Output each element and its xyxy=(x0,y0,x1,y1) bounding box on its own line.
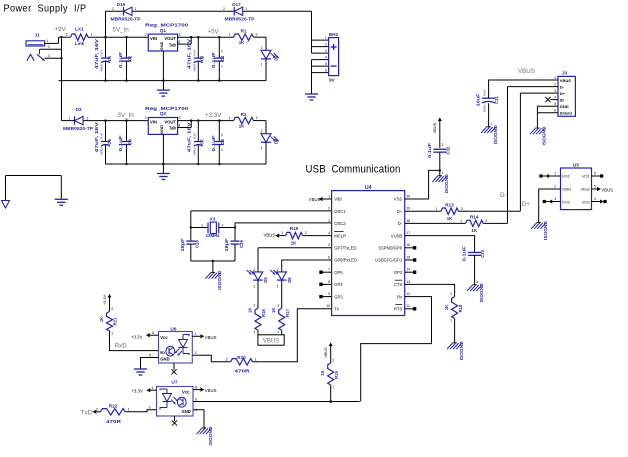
svg-text:2: 2 xyxy=(442,143,444,147)
svg-text:2: 2 xyxy=(261,129,263,133)
wire LX1 to Q1 VIN xyxy=(88,36,148,38)
connector J3 USB xyxy=(554,70,575,116)
capacitor C2 0.1uF xyxy=(118,37,132,80)
svg-text:Reg_MCP1700: Reg_MCP1700 xyxy=(145,23,188,29)
svg-text:2: 2 xyxy=(66,33,68,37)
earth ground triangle xyxy=(2,201,10,209)
svg-text:USBCFG/GP1: USBCFG/GP1 xyxy=(375,258,403,263)
svg-text:GP4: GP4 xyxy=(334,282,343,287)
IC U5 xyxy=(561,162,592,209)
svg-text:ISOGND: ISOGND xyxy=(217,271,222,290)
svg-text:0.1uF: 0.1uF xyxy=(211,51,216,68)
diode D3 MBR0520-TP xyxy=(63,107,93,131)
svg-text:1: 1 xyxy=(277,330,279,334)
svg-text:D+: D+ xyxy=(397,209,403,214)
svg-text:6: 6 xyxy=(594,172,596,176)
capacitor C33 0.1uF xyxy=(462,246,485,285)
svg-text:ISOGND: ISOGND xyxy=(479,283,484,302)
svg-text:16: 16 xyxy=(406,243,410,247)
wire 3.3V ground rail xyxy=(106,163,267,165)
svg-text:VBUS: VBUS xyxy=(263,339,279,345)
svg-text:C28: C28 xyxy=(195,239,200,247)
svg-text:C8: C8 xyxy=(220,139,225,145)
svg-text:Power Supply I/P: Power Supply I/P xyxy=(4,3,87,14)
svg-text:8: 8 xyxy=(152,331,154,335)
svg-text:8: 8 xyxy=(328,280,330,284)
svg-text:D-: D- xyxy=(398,221,403,226)
capacitor C32 0.1uF xyxy=(427,142,450,175)
svg-text:1: 1 xyxy=(152,386,154,390)
svg-text:11: 11 xyxy=(406,304,410,308)
ground Q2 xyxy=(157,173,170,175)
svg-text:R18: R18 xyxy=(458,304,463,312)
svg-text:Q1: Q1 xyxy=(160,28,167,34)
connector J1 xyxy=(26,33,45,61)
wire R22 to U7 xyxy=(125,410,156,412)
svg-text:C1: C1 xyxy=(107,55,112,61)
ground ISOGND U7 xyxy=(197,427,214,446)
svg-text:MINUS: MINUS xyxy=(194,63,196,71)
svg-text:4: 4 xyxy=(328,231,330,235)
resistor R1 1K xyxy=(229,29,258,45)
capacitor C3 47uF 16V xyxy=(187,37,205,80)
svg-text:5V_In: 5V_In xyxy=(113,27,130,34)
svg-text:0.1uF: 0.1uF xyxy=(211,135,216,152)
svg-text:+3.3V: +3.3V xyxy=(103,295,107,305)
wire U5 GND to ISOGND xyxy=(539,185,561,223)
wire top battery rail xyxy=(106,10,312,12)
resistor R21 1K xyxy=(99,294,118,336)
svg-text:Vcc: Vcc xyxy=(160,335,168,340)
svg-text:3: 3 xyxy=(48,54,50,58)
capacitor C31 10uF xyxy=(476,89,499,126)
svg-text:2: 2 xyxy=(222,223,224,227)
battery holder BH1 9V xyxy=(329,32,339,82)
svg-text:12MHz: 12MHz xyxy=(206,233,220,238)
wire OSC2 loop xyxy=(235,223,332,241)
wire U7 pin1 port +3.3V xyxy=(132,386,157,394)
svg-text:1: 1 xyxy=(554,76,556,80)
svg-text:3: 3 xyxy=(179,116,181,120)
svg-text:1: 1 xyxy=(253,285,255,289)
svg-text:R2: R2 xyxy=(241,112,247,117)
svg-text:47uF, 16V: 47uF, 16V xyxy=(187,39,192,69)
U5 pin1 port xyxy=(539,172,560,179)
svg-text:1K: 1K xyxy=(247,308,252,313)
svg-text:D3: D3 xyxy=(76,107,82,112)
wire D6 to R17 xyxy=(281,280,283,308)
svg-text:0.1uF: 0.1uF xyxy=(118,51,123,68)
svg-text:I/O1: I/O1 xyxy=(562,174,570,179)
svg-text:U7: U7 xyxy=(171,379,177,385)
svg-text:D5: D5 xyxy=(263,277,268,283)
svg-text:I/O2: I/O2 xyxy=(582,200,590,205)
svg-text:R13: R13 xyxy=(445,202,454,207)
svg-text:MINUS: MINUS xyxy=(102,63,104,71)
wire J1 pin2 xyxy=(40,45,62,49)
svg-text:1: 1 xyxy=(281,231,283,235)
svg-text:10uF: 10uF xyxy=(476,93,481,107)
capacitor C28 18pF xyxy=(180,238,200,261)
svg-text:R1: R1 xyxy=(241,29,247,34)
svg-text:2: 2 xyxy=(461,207,463,211)
svg-text:5: 5 xyxy=(149,353,151,357)
LED D2 xyxy=(261,46,279,81)
svg-text:2: 2 xyxy=(195,351,197,355)
svg-text:20: 20 xyxy=(406,194,410,198)
capacitor C29 18pF xyxy=(224,238,244,261)
svg-text:+5V: +5V xyxy=(208,29,220,36)
svg-text:USB Communication: USB Communication xyxy=(306,164,401,176)
wire battery rail to BH1 xyxy=(312,11,329,53)
svg-text:R15: R15 xyxy=(290,226,299,231)
wire OSC1 loop xyxy=(191,211,332,241)
svg-text:3V_In: 3V_In xyxy=(118,112,135,119)
ground U6 xyxy=(134,368,147,370)
wire J3 D+ down xyxy=(520,92,558,94)
svg-text:1: 1 xyxy=(135,7,137,11)
resistor R14 1K xyxy=(405,215,508,234)
svg-text:D+: D+ xyxy=(522,201,530,208)
svg-text:VIN: VIN xyxy=(150,36,157,41)
ground Q1 xyxy=(157,89,170,91)
svg-text:D+: D+ xyxy=(560,91,566,96)
crystal X3 12MHz xyxy=(190,217,237,239)
svg-text:SSPND/GP0: SSPND/GP0 xyxy=(378,246,403,251)
wire +9V to D3 xyxy=(62,120,75,122)
svg-text:4: 4 xyxy=(554,96,556,100)
ground ISOGND C31 xyxy=(481,125,498,144)
svg-text:0.1uF: 0.1uF xyxy=(462,246,467,262)
wire R20 to U6 xyxy=(192,355,230,362)
svg-text:0.1uF: 0.1uF xyxy=(118,135,123,152)
svg-text:BH1: BH1 xyxy=(329,32,339,37)
svg-text:GP6/RxLED: GP6/RxLED xyxy=(334,258,357,263)
svg-text:10: 10 xyxy=(326,304,330,308)
svg-text:17: 17 xyxy=(406,231,410,235)
optocoupler U6 xyxy=(159,326,193,363)
svg-text:GND: GND xyxy=(562,187,571,192)
capacitor C7 47uF 16V xyxy=(187,121,205,164)
wire Q1 VOUT to +5V rail xyxy=(178,36,234,44)
svg-text:Vcc: Vcc xyxy=(182,389,190,394)
svg-text:1K: 1K xyxy=(444,305,449,310)
U5 pin3 port xyxy=(543,197,561,204)
svg-text:OSC2: OSC2 xyxy=(334,221,346,226)
ground ISOGND C32 xyxy=(432,174,449,193)
ground ISOGND U5 xyxy=(531,221,548,240)
wire D5 to R16 xyxy=(257,280,259,308)
wire D+ from J3 xyxy=(519,93,521,211)
svg-text:9V: 9V xyxy=(329,78,336,83)
svg-text:+3.3V: +3.3V xyxy=(131,335,142,340)
svg-text:ISOGND: ISOGND xyxy=(493,125,498,144)
svg-text:R22: R22 xyxy=(109,403,118,408)
capacitor C8 0.1uF xyxy=(211,121,225,164)
resistor R20 470R xyxy=(226,355,257,373)
svg-text:2: 2 xyxy=(254,304,256,308)
J3 ID no-connect xyxy=(545,97,558,102)
svg-text:R17: R17 xyxy=(285,308,290,316)
svg-text:ISOGND: ISOGND xyxy=(459,341,464,360)
svg-text:VOUT: VOUT xyxy=(164,119,176,124)
svg-text:C33: C33 xyxy=(480,249,485,257)
svg-text:MINUS: MINUS xyxy=(194,147,196,155)
wire crystal ground xyxy=(191,260,235,273)
svg-text:6: 6 xyxy=(554,109,556,113)
svg-text:0.1uF: 0.1uF xyxy=(427,142,432,158)
svg-text:1: 1 xyxy=(255,357,257,361)
svg-text:3: 3 xyxy=(149,406,151,410)
svg-text:PLUS: PLUS xyxy=(485,89,487,95)
svg-text:1K: 1K xyxy=(99,317,104,322)
svg-text:2: 2 xyxy=(48,45,50,49)
optocoupler U7 xyxy=(157,379,194,416)
wire earth link xyxy=(6,176,62,201)
svg-text:Rx: Rx xyxy=(397,294,403,299)
regulator Q2 Reg_MCP1700 xyxy=(145,106,189,134)
LED D6 xyxy=(270,268,292,289)
capacitor C6 0.1uF xyxy=(118,121,132,164)
U4 left pin names xyxy=(326,194,357,311)
svg-text:MBR0520-TP: MBR0520-TP xyxy=(225,17,255,22)
wire VUSB to C33 xyxy=(405,236,475,253)
svg-text:MBR0520-TP: MBR0520-TP xyxy=(111,17,141,22)
svg-text:47uF, 16V: 47uF, 16V xyxy=(94,39,99,69)
svg-text:1: 1 xyxy=(111,332,113,336)
svg-text:2: 2 xyxy=(305,231,307,235)
svg-text:GND: GND xyxy=(160,357,169,362)
svg-text:ISOGND: ISOGND xyxy=(444,174,449,193)
resistor R2 1K xyxy=(229,112,258,128)
svg-text:1: 1 xyxy=(277,285,279,289)
svg-text:3: 3 xyxy=(325,49,327,53)
regulator Q1 Reg_MCP1700 xyxy=(145,23,189,52)
svg-text:VBUS: VBUS xyxy=(433,122,437,133)
resistor R16 1K xyxy=(247,304,266,335)
resistor R13 1K xyxy=(405,202,521,221)
svg-text:D-: D- xyxy=(500,192,507,199)
svg-text:GP2: GP2 xyxy=(394,270,403,275)
ground bar symbol xyxy=(55,198,68,200)
svg-text:5: 5 xyxy=(325,62,327,66)
U4 right GP0 GP1 GP2 RTS stubs xyxy=(405,246,417,310)
svg-text:2: 2 xyxy=(145,33,147,37)
wire R15 to MCLR xyxy=(303,235,332,237)
svg-text:+3.3V: +3.3V xyxy=(132,389,143,394)
svg-text:VBUS: VBUS xyxy=(518,68,535,75)
svg-text:2: 2 xyxy=(277,268,279,272)
svg-text:14: 14 xyxy=(406,268,410,272)
svg-text:VSS: VSS xyxy=(394,197,403,202)
svg-text:1: 1 xyxy=(221,65,223,69)
svg-text:3: 3 xyxy=(179,33,181,37)
svg-text:18pF: 18pF xyxy=(224,238,229,252)
resistor R15 1K xyxy=(264,226,307,245)
ground BH1 xyxy=(305,93,318,95)
diode D17 MBR0520-TP xyxy=(223,2,255,21)
svg-text:2: 2 xyxy=(261,46,263,50)
wire Q1 GND to ground xyxy=(162,51,164,90)
svg-text:1K: 1K xyxy=(271,308,276,313)
svg-text:1: 1 xyxy=(229,33,231,37)
svg-text:R19: R19 xyxy=(334,370,339,378)
svg-text:PLUS: PLUS xyxy=(102,132,104,138)
svg-text:Shield: Shield xyxy=(560,111,573,116)
node VBUS box xyxy=(258,335,284,345)
svg-text:12: 12 xyxy=(406,292,410,296)
svg-text:TxD: TxD xyxy=(81,410,93,417)
LED D4 xyxy=(261,129,279,164)
svg-text:D2: D2 xyxy=(274,55,279,61)
svg-text:Reg_MCP1700: Reg_MCP1700 xyxy=(145,106,188,112)
IC U4 xyxy=(332,185,405,315)
svg-text:470R: 470R xyxy=(106,419,122,424)
wire U6 Vcc port +3.3V xyxy=(131,331,159,340)
svg-text:RTS: RTS xyxy=(394,307,403,312)
svg-text:GND: GND xyxy=(159,41,164,50)
svg-text:D4: D4 xyxy=(274,138,279,144)
U5 pin5 port VBUS xyxy=(592,185,614,193)
svg-text:J1: J1 xyxy=(34,33,40,38)
U5 pin4 port xyxy=(592,197,607,204)
svg-text:R21: R21 xyxy=(113,317,118,325)
svg-text:C3: C3 xyxy=(200,55,205,61)
wire 5V_In node vertical xyxy=(105,11,107,58)
svg-text:4: 4 xyxy=(325,56,327,60)
U6 NC stub xyxy=(171,363,176,374)
svg-text:6: 6 xyxy=(195,397,197,401)
wire R21 to U6 Vo xyxy=(110,331,159,351)
svg-text:2: 2 xyxy=(221,133,223,137)
wire R1 to LED D2 xyxy=(254,37,267,50)
svg-text:1: 1 xyxy=(91,33,93,37)
svg-text:I/O1: I/O1 xyxy=(582,174,590,179)
resistor R22 470R xyxy=(81,403,130,424)
svg-text:13: 13 xyxy=(406,280,410,284)
svg-text:2: 2 xyxy=(325,43,327,47)
svg-text:2: 2 xyxy=(111,307,113,311)
svg-text:5: 5 xyxy=(328,243,330,247)
wire Q2 GND to ground xyxy=(162,134,164,173)
svg-text:3: 3 xyxy=(554,89,556,93)
wire U6 pin1 port VBUS xyxy=(192,332,216,340)
svg-text:D16: D16 xyxy=(117,2,126,7)
svg-text:18: 18 xyxy=(406,219,410,223)
svg-text:C29: C29 xyxy=(239,239,244,247)
svg-text:VBUS: VBUS xyxy=(264,233,276,238)
svg-text:1K: 1K xyxy=(320,370,325,375)
U4 right pin names xyxy=(375,194,410,311)
svg-text:2: 2 xyxy=(256,116,258,120)
svg-text:2: 2 xyxy=(87,117,89,121)
svg-text:3: 3 xyxy=(554,197,556,201)
svg-text:2: 2 xyxy=(112,7,114,11)
svg-text:18pF: 18pF xyxy=(180,238,185,252)
svg-text:ISOGND: ISOGND xyxy=(208,427,213,446)
svg-text:D6: D6 xyxy=(287,277,292,283)
svg-text:1K: 1K xyxy=(239,123,245,128)
svg-text:VBUS: VBUS xyxy=(205,335,217,340)
svg-text:1: 1 xyxy=(128,407,130,411)
svg-text:PLUS: PLUS xyxy=(194,132,196,138)
ground ISOGND J3 xyxy=(530,127,547,146)
svg-text:MINUS: MINUS xyxy=(485,104,487,112)
svg-text:+3.3V: +3.3V xyxy=(205,112,222,119)
svg-text:I/O2: I/O2 xyxy=(562,200,570,205)
svg-text:GND: GND xyxy=(560,104,569,109)
svg-text:MINUS: MINUS xyxy=(102,147,104,155)
svg-text:C31: C31 xyxy=(494,95,499,103)
svg-text:R16: R16 xyxy=(261,308,266,316)
U4 GP5 GP4 GP3 stubs xyxy=(319,271,331,299)
svg-text:OSC1: OSC1 xyxy=(334,209,346,214)
svg-text:6: 6 xyxy=(328,255,330,259)
svg-text:CTS: CTS xyxy=(394,282,403,287)
svg-text:2: 2 xyxy=(256,33,258,37)
inductor LX1 Link xyxy=(66,27,93,47)
svg-text:1K: 1K xyxy=(291,240,297,245)
svg-text:GP5: GP5 xyxy=(334,270,343,275)
wire U7 Vcc port VBUS xyxy=(193,385,217,393)
wire VSS to C32 node xyxy=(405,169,441,199)
svg-text:Tab: Tab xyxy=(169,42,177,47)
svg-text:6: 6 xyxy=(325,69,327,73)
svg-text:C32: C32 xyxy=(445,146,450,154)
svg-text:LX1: LX1 xyxy=(75,27,84,32)
svg-text:1K: 1K xyxy=(471,228,477,233)
svg-text:Link: Link xyxy=(75,41,85,46)
wire +9V node vertical xyxy=(59,36,63,121)
wire J1 pin3 xyxy=(45,54,63,59)
svg-text:4: 4 xyxy=(594,197,596,201)
U7 NC stub xyxy=(172,416,177,426)
svg-text:8: 8 xyxy=(195,385,197,389)
svg-text:GP7/TxLED: GP7/TxLED xyxy=(334,246,356,251)
svg-text:5: 5 xyxy=(554,102,556,106)
svg-text:2: 2 xyxy=(554,185,556,189)
svg-text:2: 2 xyxy=(221,50,223,54)
svg-text:1: 1 xyxy=(195,332,197,336)
capacitor C4 0.1uF xyxy=(211,37,225,80)
svg-text:VBUS: VBUS xyxy=(309,197,321,202)
svg-text:C2: C2 xyxy=(127,55,132,61)
svg-text:1: 1 xyxy=(325,36,327,40)
svg-text:19: 19 xyxy=(406,207,410,211)
wire Rx to U7 xyxy=(361,297,432,402)
U5 pin6 port xyxy=(592,172,604,178)
svg-text:J3: J3 xyxy=(562,70,568,76)
svg-text:C6: C6 xyxy=(127,139,132,145)
wire U7 GND to ISOGND xyxy=(193,408,204,428)
svg-text:VBUS: VBUS xyxy=(324,347,328,358)
wire GP7 to D5 xyxy=(258,248,332,272)
wire Tx to R20 xyxy=(253,309,332,362)
svg-text:R20: R20 xyxy=(237,355,246,360)
ground ISOGND R18 xyxy=(447,341,464,360)
svg-text:VIN: VIN xyxy=(150,119,157,124)
ground ISOGND crystal xyxy=(205,271,222,290)
svg-text:1: 1 xyxy=(221,148,223,152)
svg-text:GND: GND xyxy=(159,125,164,134)
svg-text:GP3: GP3 xyxy=(334,294,343,299)
svg-text:2: 2 xyxy=(96,407,98,411)
svg-text:1K: 1K xyxy=(239,40,245,45)
svg-text:9: 9 xyxy=(328,292,330,296)
wire J1 pin1 xyxy=(45,39,59,43)
svg-text:1: 1 xyxy=(69,117,71,121)
svg-text:2: 2 xyxy=(253,268,255,272)
